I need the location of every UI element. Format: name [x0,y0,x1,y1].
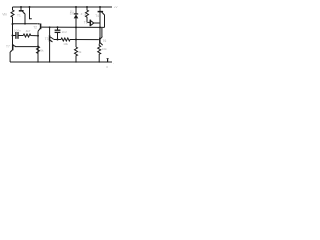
resistor R3 (horizontal, y35.5) [23,34,37,37]
svg-text:T5: T5 [84,20,88,24]
junction x99 on bottom rail [99,61,100,62]
node H [37,45,39,47]
transistor Q3 (middle) [49,27,51,35]
node on rail at diode [75,6,77,8]
wire y27 long horizontal [41,26,104,28]
capacitor C2 (vertical at x57.5) [57,27,59,30]
node on rail at R6 [86,6,88,8]
svg-text:1k: 1k [83,12,87,16]
svg-text:T6: T6 [103,39,107,43]
svg-text:Vin: Vin [2,12,7,16]
node F [99,26,101,28]
svg-text:10k: 10k [63,42,68,46]
resistor R2 (vertical at x38) [37,46,40,53]
node D [57,26,59,28]
output stub terminal [107,59,109,62]
junction x76 on bottom rail [75,61,76,62]
capacitor C1 (left, on y35.5 wire) [13,35,16,37]
wire left branch vertical [12,24,14,44]
svg-text:2n2: 2n2 [62,30,67,34]
svg-text:T7: T7 [6,45,10,49]
wire Q5 out [93,22,100,24]
junction x38 on bottom rail [37,61,38,62]
svg-text:T3: T3 [45,37,49,41]
transistor Q6 (bottom right) [99,38,101,44]
node on rail at L-stub [29,6,31,8]
svg-text:0: 0 [106,65,108,69]
diode D1 (zener, vertical at x76) [75,7,77,14]
svg-text:T1: T1 [17,14,21,18]
wire R6 to Q5 base [87,21,90,23]
node B [12,35,14,37]
node J [75,39,77,41]
wire y39.5 horizontal [54,39,61,41]
svg-text:T4: T4 [95,14,99,18]
wire bottom rail [10,61,112,63]
node A [12,23,14,25]
junction at Q1 emitter on wire [24,23,26,25]
svg-text:+V: +V [114,5,118,9]
wire y23.5 horizontal [13,23,38,25]
resistor R1 (Vin input, vertical left) [11,7,14,24]
svg-text:100n: 100n [14,28,21,32]
node G [37,35,39,37]
svg-text:-: - [113,62,114,66]
wire top rail [13,6,113,8]
transistor Q_bl (bottom left) [12,44,14,50]
resistor R4 (horizontal, y39.5) [61,38,70,41]
junction x49.6 on bottom rail [49,61,50,62]
transistor Q2 (mirrored, bar at x40.5) [40,24,42,30]
transistor Q1 (top left, hanging from rail) [20,7,22,10]
svg-text:3k: 3k [78,50,82,54]
resistor R5 (vertical at x76) [75,47,78,62]
node I [57,39,59,41]
resistor R6 (vertical at x87) [86,7,89,22]
node C [49,26,51,28]
resistor R7 (vertical at x99) [98,44,101,62]
wire L-stub from rail [30,7,32,19]
svg-text:5,6: 5,6 [70,12,75,16]
transistor Q5 [89,20,91,27]
svg-text:10k: 10k [102,47,107,51]
wire right vertical x100 [99,7,101,38]
node on rail at Q1 [20,6,22,8]
transistor Q4 (top right) [98,11,104,13]
wire Q2 collector down [37,31,39,62]
svg-text:5k: 5k [40,49,44,53]
svg-text:4k7: 4k7 [26,29,31,33]
node on rail at x100 [99,6,101,8]
node E [75,26,77,28]
svg-text:T2: T2 [33,26,37,30]
